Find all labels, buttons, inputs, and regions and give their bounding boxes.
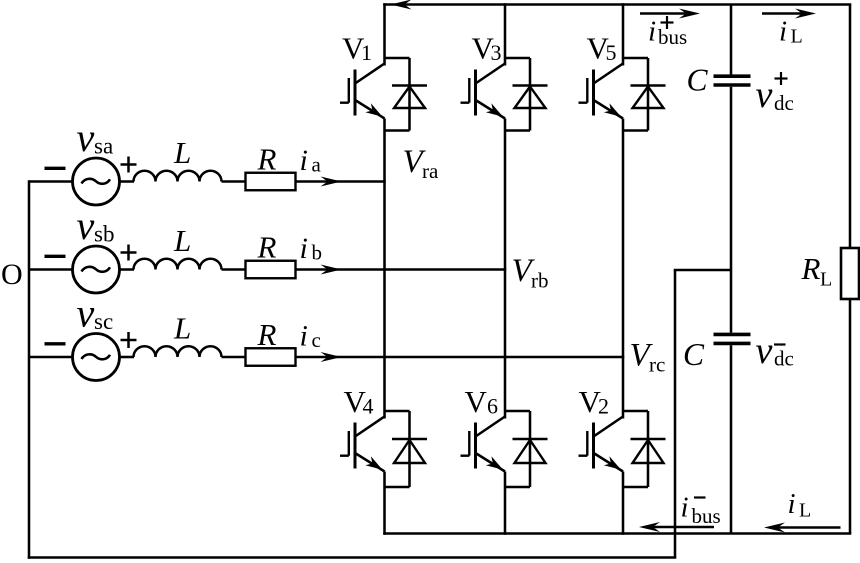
diode of V4 (antiparallel) xyxy=(392,439,427,463)
label V6 xyxy=(465,384,499,419)
wire R to leg (phase a) xyxy=(296,180,386,183)
wire leg a upper xyxy=(383,3,386,65)
label L (phase c) xyxy=(173,311,191,346)
ac source v_sc xyxy=(73,334,120,381)
sine symbol of v_sc xyxy=(82,354,111,359)
current arrow i_L (bottom) xyxy=(764,523,841,533)
capacitor C1 (upper dc-link) xyxy=(714,76,751,85)
label R (phase b) xyxy=(257,230,277,265)
wire top bus (positive rail) xyxy=(383,3,851,6)
svg-text:2: 2 xyxy=(598,394,609,419)
wire L to R (phase c) xyxy=(222,356,246,359)
label V5 xyxy=(587,31,617,66)
wire v_sa to L xyxy=(120,180,134,183)
label i_bus+ xyxy=(648,16,687,50)
current arrow i_bus+ xyxy=(640,9,700,19)
inductor L (phase c) xyxy=(134,346,222,357)
label node V_rb xyxy=(512,253,549,293)
svg-text:bus: bus xyxy=(692,504,721,528)
wire rail to v_sc xyxy=(29,356,72,359)
svg-text:i: i xyxy=(648,16,656,48)
current arrow i_L (top) xyxy=(762,9,816,19)
svg-text:a: a xyxy=(312,153,322,177)
svg-text:rc: rc xyxy=(649,353,665,377)
wire stubs of V4 module xyxy=(385,411,410,487)
wire top bus to C1 xyxy=(730,5,733,77)
svg-text:v: v xyxy=(77,203,95,248)
polarity minus of v_sc xyxy=(45,342,66,345)
svg-text:L: L xyxy=(173,311,191,346)
svg-text:4: 4 xyxy=(363,394,374,419)
wire leg a middle xyxy=(383,119,386,419)
transistor V1 (IGBT) xyxy=(340,64,385,119)
svg-text:1: 1 xyxy=(361,40,372,65)
wire v_sb to L xyxy=(120,268,134,271)
svg-text:dc: dc xyxy=(774,91,794,115)
minus of i_bus- xyxy=(694,496,706,498)
current arrow i_c xyxy=(321,352,342,362)
wire leg c middle xyxy=(622,119,625,419)
svg-text:rb: rb xyxy=(531,269,549,293)
resistor R_L (load) xyxy=(841,248,859,299)
label i_a xyxy=(300,144,322,177)
svg-text:R: R xyxy=(257,230,277,265)
inductor L (phase a) xyxy=(134,171,222,182)
inductor L (phase b) xyxy=(134,259,222,270)
wire leg a lower xyxy=(383,472,386,535)
label v_dc+ xyxy=(756,74,794,116)
label i_L (bottom) xyxy=(788,488,812,522)
wire stubs of V1 module xyxy=(385,58,410,131)
diode of V5 (antiparallel) xyxy=(631,86,666,109)
sine symbol of v_sb xyxy=(82,267,111,272)
transistor V5 (IGBT) xyxy=(579,64,624,119)
label v_sa xyxy=(77,115,114,160)
minus of v_dc- xyxy=(774,343,786,345)
wire R to leg (phase c) xyxy=(296,356,625,359)
polarity minus of v_sa xyxy=(45,167,66,170)
svg-text:sb: sb xyxy=(94,221,114,246)
svg-text:C: C xyxy=(683,337,705,372)
wire midpoint rail down xyxy=(674,270,677,558)
svg-text:i: i xyxy=(300,232,308,265)
wire leg b upper xyxy=(504,3,507,65)
label i_L (top) xyxy=(779,16,803,48)
svg-text:3: 3 xyxy=(491,40,502,65)
sine symbol of v_sa xyxy=(82,179,111,184)
transistor V2 (IGBT) xyxy=(579,417,624,472)
svg-text:c: c xyxy=(312,328,321,352)
current arrow i_b xyxy=(321,265,342,275)
svg-text:R: R xyxy=(801,251,821,286)
label i_c xyxy=(300,320,321,353)
svg-text:6: 6 xyxy=(487,394,498,419)
svg-text:v: v xyxy=(756,330,773,372)
svg-text:V: V xyxy=(465,384,488,419)
resistor R (phase b) xyxy=(246,261,296,279)
svg-text:v: v xyxy=(77,291,95,336)
svg-text:dc: dc xyxy=(774,347,794,371)
wire right rail lower xyxy=(849,299,852,534)
label V2 xyxy=(579,384,610,419)
diode of V2 (antiparallel) xyxy=(631,439,666,463)
capacitor C2 (lower dc-link) xyxy=(714,334,751,343)
svg-text:sc: sc xyxy=(94,309,113,334)
label v_sb xyxy=(77,203,115,248)
label C (upper) xyxy=(687,63,709,98)
svg-text:C: C xyxy=(687,63,709,98)
svg-text:L: L xyxy=(799,500,811,522)
wire L to R (phase b) xyxy=(222,268,246,271)
svg-text:v: v xyxy=(77,115,95,160)
svg-text:sa: sa xyxy=(94,133,113,158)
svg-text:i: i xyxy=(300,144,308,177)
wire leg c lower xyxy=(622,472,625,535)
svg-text:O: O xyxy=(1,258,23,291)
wire stubs of V3 module xyxy=(505,58,530,131)
transistor V4 (IGBT) xyxy=(340,417,385,472)
svg-text:R: R xyxy=(257,142,277,177)
svg-text:b: b xyxy=(312,241,323,265)
svg-text:i: i xyxy=(779,16,787,48)
plus of i_bus+ xyxy=(661,16,674,29)
plus of v_dc+ xyxy=(775,72,788,85)
wire C2 to bottom bus xyxy=(730,345,733,533)
wire bottom return xyxy=(28,556,677,559)
diode of V3 (antiparallel) xyxy=(513,86,548,109)
current arrow i_a xyxy=(321,177,342,187)
ac source v_sb xyxy=(73,246,120,293)
wire bottom bus (negative rail) xyxy=(383,532,851,535)
wire stubs of V6 module xyxy=(505,411,530,487)
wire leg b middle xyxy=(504,119,507,419)
polarity plus of v_sc xyxy=(121,332,137,348)
wire left rail xyxy=(28,180,31,559)
label L (phase a) xyxy=(173,135,191,170)
wire L to R (phase a) xyxy=(222,180,246,183)
label v_sc xyxy=(77,291,114,336)
svg-text:L: L xyxy=(791,26,803,48)
svg-text:L: L xyxy=(820,269,832,291)
diode of V1 (antiparallel) xyxy=(392,86,427,109)
transistor V6 (IGBT) xyxy=(461,417,506,472)
ac source v_sa xyxy=(73,158,120,205)
polarity plus of v_sa xyxy=(121,157,137,173)
svg-text:i: i xyxy=(300,320,308,353)
wire C1 to C2 xyxy=(730,87,733,333)
label V4 xyxy=(344,384,374,419)
label i_bus- xyxy=(681,492,721,529)
label V3 xyxy=(472,31,502,66)
label node V_ra xyxy=(403,144,439,183)
current arrow i_bus- xyxy=(639,522,714,532)
transistor V3 (IGBT) xyxy=(461,64,506,119)
svg-text:ra: ra xyxy=(422,159,439,183)
wire R to leg (phase b) xyxy=(296,268,507,271)
polarity plus of v_sb xyxy=(121,245,137,261)
wire rail to v_sb xyxy=(29,268,72,271)
label node V_rc xyxy=(630,338,666,377)
label v_dc- xyxy=(756,330,794,372)
label R (phase c) xyxy=(257,317,277,352)
wire capacitor midpoint to rail xyxy=(674,269,731,272)
resistor R (phase c) xyxy=(246,348,296,366)
wire rail to v_sa xyxy=(29,180,72,183)
node O (neutral) label xyxy=(1,258,23,291)
diode of V6 (antiparallel) xyxy=(513,439,548,463)
wire stubs of V5 module xyxy=(623,58,648,131)
label L (phase b) xyxy=(173,223,191,258)
svg-text:R: R xyxy=(257,317,277,352)
svg-text:L: L xyxy=(173,223,191,258)
label R (phase a) xyxy=(257,142,277,177)
wire right rail upper xyxy=(849,5,852,249)
svg-text:i: i xyxy=(681,492,689,524)
label C (lower) xyxy=(683,337,705,372)
label R_L xyxy=(801,251,833,291)
wire stubs of V2 module xyxy=(623,411,648,487)
resistor R (phase a) xyxy=(246,173,296,191)
label V1 xyxy=(342,31,372,66)
wire leg b lower xyxy=(504,472,507,535)
polarity minus of v_sb xyxy=(45,255,66,258)
svg-text:5: 5 xyxy=(606,40,617,65)
wire leg c upper xyxy=(622,3,625,65)
label i_b xyxy=(300,232,323,265)
wire v_sc to L xyxy=(120,356,134,359)
svg-text:bus: bus xyxy=(658,25,687,49)
svg-text:v: v xyxy=(756,74,773,116)
current arrow on top bus xyxy=(391,0,412,10)
svg-text:L: L xyxy=(173,135,191,170)
svg-text:i: i xyxy=(788,488,796,520)
